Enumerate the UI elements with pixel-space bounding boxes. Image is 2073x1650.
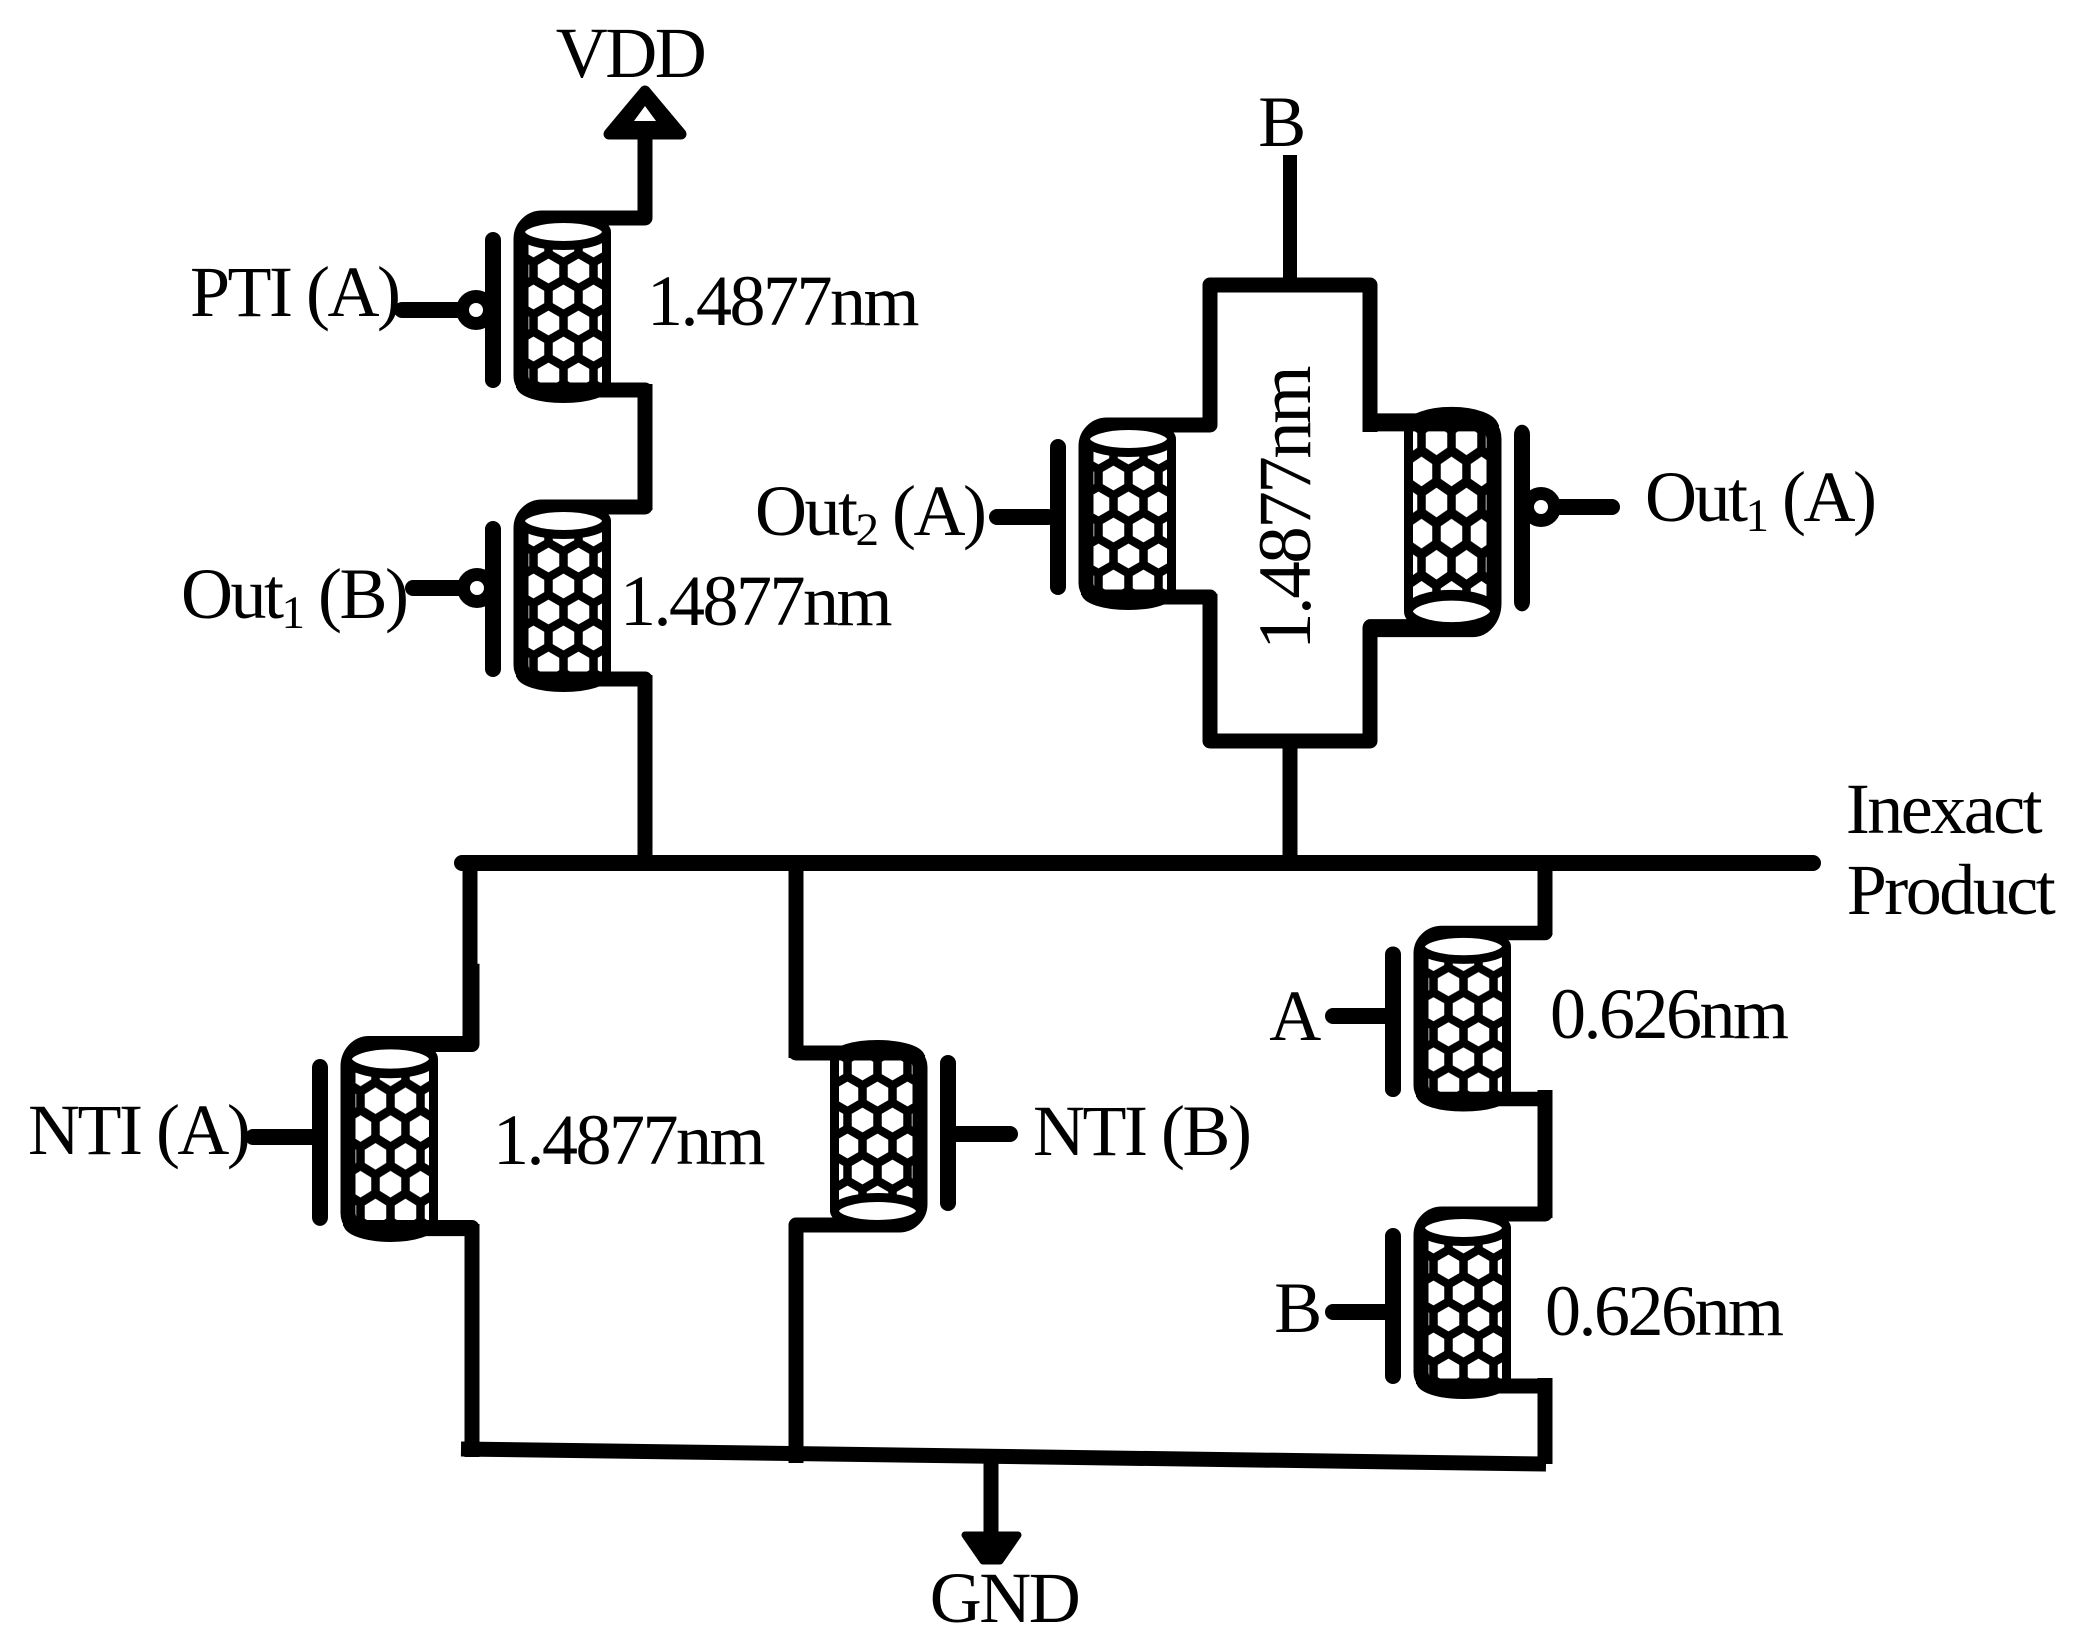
gate wire Out1(B) [413,580,458,596]
svg-text:Out1 (A): Out1 (A) [1645,457,1874,542]
gate wire Out1 (A) [1561,499,1612,515]
wire to GND [984,1452,999,1537]
gate wire NTI (B) [957,1126,1010,1142]
ground rail [461,1449,1546,1464]
svg-text:NTI (A): NTI (A) [28,1090,248,1170]
svg-text:GND: GND [930,1558,1079,1638]
wire transistor A to transistor B [1538,1090,1553,1218]
wire transmission gate to product rail [1283,741,1298,866]
PMOS bubble Out1 (A) [1521,487,1561,527]
transistor Out1 (A) (right of transmission gate) [1370,329,1530,718]
gate wire PTI [402,302,457,318]
transistor A [1385,861,1545,1175]
svg-text:1.4877nm: 1.4877nm [493,1100,765,1180]
svg-text:0.626nm: 0.626nm [1550,974,1788,1054]
wire B input [1283,155,1297,290]
GND symbol [965,1535,1018,1561]
transistor Out1 (B) [485,432,645,757]
transistor Out2 (A) (left of transmission gate) [1050,350,1210,675]
gate wire A [1333,1008,1385,1024]
wire PTI to Out1(B) transistor [638,384,653,510]
PMOS bubble PTI [456,290,496,330]
transistor NTI (A) [312,964,472,1312]
wire VDD to PTI transistor [638,132,653,218]
gate wire Out2 (A) [997,509,1048,525]
wire rail to NTI(B) drain [789,857,804,1058]
PMOS bubble Out1(B) [457,568,497,608]
gate wire NTI (A) [253,1129,312,1145]
svg-text:PTI (A): PTI (A) [190,252,398,332]
wire transistor B to ground rail [1538,1378,1553,1462]
svg-text:B: B [1274,1268,1320,1348]
node: inexact product rail [462,855,1813,871]
svg-text:NTI (B): NTI (B) [1033,1091,1249,1171]
svg-text:Inexact: Inexact [1846,769,2043,849]
wire rail to NTI(A) drain [463,857,478,1046]
svg-text:0.626nm: 0.626nm [1545,1271,1783,1351]
wire NTI(B) source to ground rail [789,1225,804,1463]
transistor PTI (A) [485,143,645,468]
svg-text:Product: Product [1847,850,2056,930]
svg-text:VDD: VDD [556,13,705,93]
VDD power symbol (arrow) [609,91,681,134]
svg-text:Out2 (A): Out2 (A) [755,471,984,556]
wire NTI(A) source to ground rail [465,1224,480,1457]
transmission gate bottom edge [1210,594,1370,741]
svg-text:1.4877nm: 1.4877nm [620,561,892,641]
svg-text:B: B [1258,82,1304,162]
wire Out1(B) to product rail [638,675,653,866]
svg-text:A: A [1269,976,1321,1056]
svg-text:1.4877nm: 1.4877nm [647,261,919,341]
svg-text:1.4877nm: 1.4877nm [1244,366,1327,650]
transistor NTI (B) [796,975,956,1300]
svg-text:Out1 (B): Out1 (B) [181,554,406,639]
gate wire B [1333,1304,1385,1320]
wire rail to transistor A [1538,865,1553,935]
transistor B [1385,1139,1545,1464]
transmission gate top edge [1210,285,1370,432]
